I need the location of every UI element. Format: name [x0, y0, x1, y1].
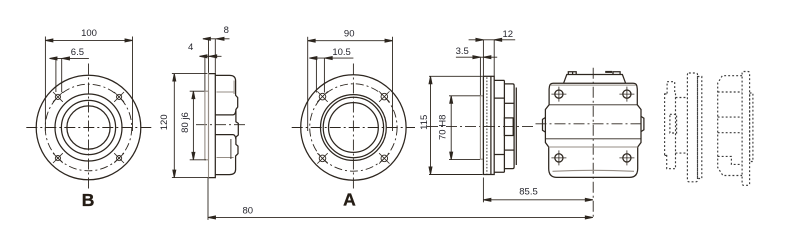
- bolt hole B bottom-right: [114, 153, 124, 163]
- cap thick dash: [605, 71, 612, 73]
- motor hole top-right: [619, 87, 634, 102]
- spigot A gray: [480, 96, 483, 159]
- circle B ring outer: [61, 100, 115, 154]
- motor line gray bottom: [553, 170, 635, 171]
- body B fillet line lower gray: [217, 157, 234, 159]
- svg-text:6.5: 6.5: [71, 47, 84, 58]
- phantom B plate: [742, 72, 750, 186]
- motor line lower mid: [545, 138, 641, 140]
- centerline side A: [427, 125, 536, 127]
- svg-text:90: 90: [344, 28, 355, 39]
- motor hole top-left: [551, 87, 566, 102]
- centerline horizontal motor: [536, 123, 645, 125]
- phantom B body line 2: [718, 116, 742, 118]
- body B fillet line upper gray: [217, 91, 234, 93]
- svg-text:4: 4: [188, 42, 193, 53]
- motor body outline: [545, 83, 641, 177]
- svg-text:85.5: 85.5: [519, 186, 538, 197]
- disc A inner line upper: [504, 102, 514, 104]
- phantom A collar bottom: [676, 152, 688, 154]
- phantom A collar top: [676, 97, 688, 99]
- collar A: [494, 80, 504, 172]
- body B seam bottom: [230, 139, 232, 159]
- motor terminal cap: [564, 75, 626, 84]
- disc A rim line: [515, 88, 517, 166]
- dimension 80 j6: [190, 91, 206, 160]
- cap box left: [568, 72, 576, 75]
- circle A ring inner: [323, 97, 383, 157]
- svg-text:100: 100: [81, 28, 97, 39]
- dimension 80 bottom: [208, 178, 593, 220]
- dimension 3.5: [456, 56, 497, 96]
- flange plate B: [209, 74, 216, 178]
- bolt hole A bottom-left: [317, 153, 327, 163]
- dimension 120: [172, 74, 208, 178]
- phantom B spigot bar: [750, 93, 753, 162]
- cap box right: [613, 72, 620, 75]
- motor right pad: [641, 116, 644, 131]
- outer circle B: [36, 75, 141, 180]
- dimension 12: [469, 38, 516, 76]
- outer circle A: [301, 75, 406, 180]
- circle A bore: [329, 103, 379, 153]
- disc A inner line lower: [504, 149, 514, 151]
- svg-text:80: 80: [243, 206, 254, 217]
- bolt hole A top-left: [317, 91, 327, 101]
- hidden line recess A: [486, 77, 488, 173]
- bolt circle A dashed: [310, 84, 397, 171]
- bolt circle B dashed: [45, 84, 132, 171]
- body B outline: [215, 75, 238, 174]
- bolt hole B bottom-left: [53, 153, 63, 163]
- disc A: [504, 84, 514, 169]
- motor hole bottom-left: [551, 150, 566, 165]
- phantom A spigot bar: [698, 77, 702, 179]
- circle B bore: [67, 106, 110, 149]
- centerline side B: [196, 124, 246, 126]
- motor line upper mid: [549, 104, 637, 106]
- phantom B body line 4: [718, 156, 742, 164]
- dimension 4: [200, 55, 222, 91]
- flange plate B left face gray: [208, 74, 210, 178]
- dimension 10.5: [309, 57, 353, 93]
- phantom A plate: [687, 73, 697, 182]
- motor line gray lower: [549, 146, 638, 148]
- centerline vertical motor: [592, 68, 594, 220]
- svg-text:12: 12: [503, 29, 514, 40]
- svg-text:80 j6: 80 j6: [180, 112, 191, 133]
- svg-text:120: 120: [159, 114, 170, 130]
- centerline vertical B: [88, 64, 90, 192]
- body B rib line upper: [215, 111, 236, 115]
- dimension 70 H8: [449, 96, 480, 160]
- svg-text:3.5: 3.5: [456, 46, 469, 57]
- dimension 85.5: [483, 178, 592, 203]
- bolt hole B top-right: [114, 92, 124, 102]
- dimension 8: [203, 37, 230, 73]
- dimension 100: [45, 37, 132, 132]
- circle A ring outer: [321, 95, 387, 161]
- hub A: [504, 118, 513, 136]
- motor top shadow gray: [551, 84, 637, 86]
- centerline vertical A: [352, 64, 354, 192]
- bolt hole B top-left: [53, 92, 63, 102]
- phantom B body line 1: [718, 91, 742, 93]
- phantom A disc step lines: [665, 94, 668, 155]
- body B seam top gray: [233, 81, 235, 95]
- svg-text:8: 8: [224, 25, 229, 36]
- motor hole bottom-right: [619, 150, 634, 165]
- phantom A hub: [670, 114, 677, 133]
- circle B d80 spigot: [55, 94, 122, 161]
- phantom B body line 3: [718, 132, 742, 134]
- bolt hole A top-right: [379, 91, 389, 101]
- body B rib line lower: [215, 135, 236, 139]
- motor left pad: [543, 118, 546, 133]
- spigot B gray: [205, 91, 209, 160]
- svg-text:10.5: 10.5: [332, 47, 351, 58]
- centerline horizontal A: [292, 127, 415, 129]
- recess edge line A: [490, 76, 492, 174]
- bolt hole A bottom-right: [379, 153, 389, 163]
- dimension 6.5: [50, 57, 89, 92]
- dimension 90: [308, 37, 393, 131]
- svg-text:A: A: [343, 189, 356, 209]
- phantom A disc: [665, 82, 676, 169]
- svg-text:B: B: [82, 190, 95, 210]
- phantom B body: [718, 76, 742, 176]
- centerline horizontal B: [26, 127, 153, 129]
- dimension 115: [429, 76, 483, 174]
- svg-text:70 H8: 70 H8: [438, 115, 449, 140]
- flange plate A: [483, 76, 494, 174]
- svg-text:115: 115: [419, 115, 430, 130]
